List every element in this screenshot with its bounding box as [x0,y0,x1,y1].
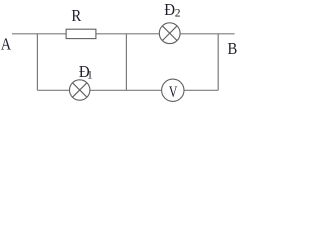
wire right vertical [217,34,219,91]
svg-text:V: V [169,84,178,101]
lamp D2 [159,23,180,44]
svg-text:A: A [1,35,11,54]
voltmeter V [162,79,184,101]
resistor R [66,29,96,38]
svg-text:B: B [228,39,238,58]
lamp D1 [70,80,90,100]
wire left vertical [36,34,38,91]
svg-text:Đ: Đ [164,0,175,19]
wire middle vertical [125,34,127,91]
svg-text:1: 1 [87,70,93,82]
svg-text:R: R [71,6,81,25]
svg-text:2: 2 [175,7,181,19]
wire top horizontal A to B [12,33,235,35]
wire bottom horizontal [37,89,218,91]
